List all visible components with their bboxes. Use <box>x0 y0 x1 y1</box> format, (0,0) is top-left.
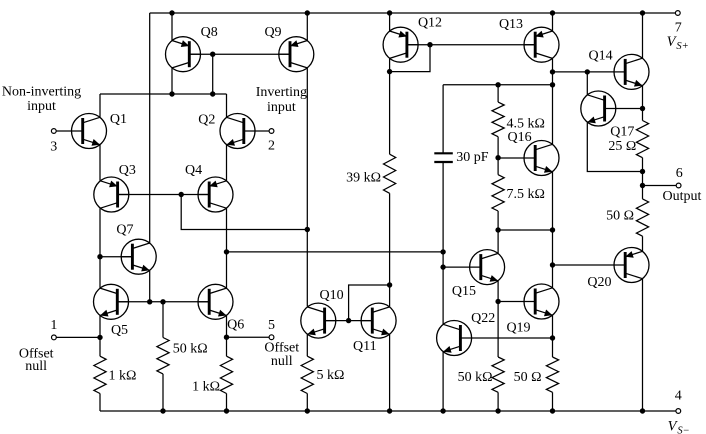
resistor R1 1k <box>94 356 137 393</box>
wire Q2 emitter to Q4 emitter <box>226 145 228 181</box>
transistor Q6 <box>198 284 245 332</box>
terminal pin 7 V_S+ <box>667 11 689 52</box>
wire Q13 emitter to top rail <box>552 13 554 31</box>
junction Q10-Q11 base node <box>346 318 351 323</box>
junction Q15 collector node <box>495 227 500 232</box>
junction Q13 collector / Q14 base node <box>550 69 555 74</box>
wire Q1 emitter to Q3 emitter <box>99 145 101 181</box>
svg-text:Output: Output <box>663 189 702 204</box>
wire Q8 base to Q9 base <box>189 53 290 55</box>
junction output tap <box>640 183 645 188</box>
junction 4.5k top <box>495 82 500 87</box>
transistor Q14 <box>589 49 649 90</box>
junction 50k resistor tap <box>160 299 165 304</box>
transistor Q2 <box>198 113 255 149</box>
wire Q13 collector down to Q16 collector <box>552 58 554 144</box>
wire Q7 collector to top rail (long vertical) <box>149 13 151 243</box>
transistor Q20 <box>553 248 650 290</box>
wire Q10 base to Q11 base <box>325 320 373 322</box>
wire Q8 base drop <box>212 54 214 94</box>
wire 25ohm to output node <box>642 158 644 199</box>
wire Q3 base to Q4 base <box>118 194 210 196</box>
junction Q16 emitter node <box>550 227 555 232</box>
junction Q8 collector node <box>169 91 174 96</box>
wire Q14 emitter down <box>642 86 644 121</box>
resistor R5 39k <box>346 154 396 193</box>
junction bias line at Q9 collector <box>305 227 310 232</box>
resistor R4 5k <box>301 356 344 393</box>
junction Q11 base-collector tie <box>387 282 392 287</box>
transistor Q15 <box>443 250 505 300</box>
junction Q12 collector node <box>387 69 392 74</box>
junction Q8 base drop node <box>210 91 215 96</box>
svg-text:Inverting: Inverting <box>256 85 307 100</box>
svg-text:7: 7 <box>675 21 682 36</box>
svg-text:1 kΩ: 1 kΩ <box>109 369 137 384</box>
wire Q17 collector up <box>586 72 588 95</box>
wire Q1 collector to node <box>99 94 101 117</box>
junction Q17 emitter at output <box>640 169 645 174</box>
junction R4 at bottom rail <box>305 408 310 413</box>
wire Q22 collector up <box>442 267 444 324</box>
wire Q12 emitter to top rail <box>389 13 391 31</box>
wire Q12 collector down <box>389 58 391 71</box>
junction Q11 emitter at bottom rail <box>387 408 392 413</box>
svg-text:Q17: Q17 <box>610 125 634 140</box>
wire Q14 collector to top rail <box>642 13 644 58</box>
junction Q9 emitter at rail <box>305 10 310 15</box>
wire Q17 emitter to output node <box>587 122 642 171</box>
junction Q20 base tap <box>550 262 555 267</box>
svg-text:1: 1 <box>50 318 57 333</box>
junction Q22 base / 50 ohm node <box>550 335 555 340</box>
wire Q1/Q8 collector bus <box>100 93 227 95</box>
wire Q12 base to collector tie <box>390 45 430 72</box>
wire compensation top line <box>443 84 552 86</box>
junction Q8 base-collector tie <box>210 52 215 57</box>
svg-text:Q11: Q11 <box>353 339 377 354</box>
svg-text:S+: S+ <box>676 41 688 52</box>
wire Q10/Q11 base to Q11 collector <box>349 285 390 321</box>
wire Q16 emitter line <box>498 229 552 231</box>
wire Q6 emitter down <box>226 316 228 357</box>
wire Q2 collector to node <box>226 94 228 117</box>
resistor R3 1k <box>192 356 233 394</box>
svg-text:50 kΩ: 50 kΩ <box>173 341 208 356</box>
svg-text:Q9: Q9 <box>264 25 281 40</box>
svg-text:S−: S− <box>677 426 689 434</box>
junction Q14 collector at rail <box>640 10 645 15</box>
transistor Q3 <box>94 163 136 212</box>
junction Q22 emitter at bottom rail <box>440 408 445 413</box>
transistor Q7 <box>116 223 156 275</box>
resistor R6 25ohm <box>636 121 648 158</box>
svg-text:null: null <box>271 354 293 369</box>
svg-text:Q2: Q2 <box>198 113 215 128</box>
svg-text:50 Ω: 50 Ω <box>606 209 634 224</box>
svg-text:3: 3 <box>50 140 57 155</box>
svg-text:Q20: Q20 <box>587 275 611 290</box>
wire Q3/Q4 bases to Q10 collector line <box>181 195 307 230</box>
wire Q19 collector up <box>552 230 554 288</box>
wire Q5 base to Q6 base <box>117 301 209 303</box>
capacitor C1 30 pF <box>434 150 489 165</box>
wire Q19 emitter down <box>552 315 554 357</box>
resistor R9 50k <box>458 357 505 392</box>
wire Q14 base line <box>553 71 626 73</box>
svg-text:Q6: Q6 <box>227 317 244 332</box>
svg-text:Q22: Q22 <box>471 311 495 326</box>
transistor Q16 <box>498 130 559 176</box>
wire Q3 collector to Q5 collector <box>99 208 101 288</box>
wire 39k to Q11 collector <box>389 193 391 285</box>
wire Q8 emitter to top rail <box>171 13 173 41</box>
junction Q15 base tie <box>440 264 445 269</box>
junction Q17 collector at Q14 base <box>585 69 590 74</box>
wire 4.5k top lead <box>497 85 499 102</box>
wire R3 bottom lead <box>226 394 228 412</box>
svg-text:input: input <box>267 100 296 115</box>
transistor Q19 <box>498 284 559 336</box>
junction R3 at bottom rail <box>224 408 229 413</box>
svg-text:Q5: Q5 <box>111 323 128 338</box>
wire Q4 collector to Q6 collector <box>226 208 228 288</box>
wire Q20 collector to bottom rail <box>642 279 644 411</box>
wire cap bottom lead <box>442 162 444 252</box>
svg-text:Q7: Q7 <box>116 223 133 238</box>
wire R4 bottom lead <box>306 394 308 412</box>
junction second stage takeoff <box>224 249 229 254</box>
transistor Q17 <box>581 91 643 126</box>
wire Q7 emitter down to base line <box>149 270 151 301</box>
transistor Q13 <box>499 17 559 62</box>
resistor R2 50k <box>157 338 208 374</box>
transistor Q1 <box>71 112 127 149</box>
junction offset null 5 node <box>224 335 229 340</box>
svg-text:25 Ω: 25 Ω <box>608 139 636 154</box>
svg-text:Q10: Q10 <box>320 288 344 303</box>
wire top supply rail V_S+ <box>150 12 676 14</box>
svg-text:50 kΩ: 50 kΩ <box>458 370 493 385</box>
wire bottom supply rail V_S- <box>100 410 676 412</box>
terminal pin 2 inverting input <box>244 85 307 153</box>
svg-text:Q14: Q14 <box>589 49 613 64</box>
junction Q8 emitter at rail <box>169 10 174 15</box>
transistor Q9 <box>264 25 313 72</box>
wire Q12 base to Q13 base <box>407 44 535 46</box>
resistor R8 7.5k <box>492 175 545 211</box>
svg-text:6: 6 <box>676 166 683 181</box>
junction Q7 emitter at base line <box>147 299 152 304</box>
wire Q19 base node to 50k <box>497 302 499 358</box>
svg-text:Q16: Q16 <box>508 130 532 145</box>
wire Q15 emitter down <box>497 281 499 302</box>
wire R10 bottom lead <box>552 392 554 411</box>
terminal pin 3 non-inverting input <box>2 85 83 155</box>
wire Q22 emitter to bottom rail <box>442 352 444 411</box>
svg-text:Q3: Q3 <box>119 163 136 178</box>
resistor R7 4.5k <box>492 102 545 137</box>
svg-text:Q19: Q19 <box>506 321 530 336</box>
svg-text:5 kΩ: 5 kΩ <box>317 368 345 383</box>
svg-text:1 kΩ: 1 kΩ <box>192 379 220 394</box>
transistor Q22 <box>437 311 553 355</box>
wire input stage output line <box>227 251 444 253</box>
wire cap top lead <box>442 85 444 154</box>
svg-text:7.5 kΩ: 7.5 kΩ <box>507 187 545 202</box>
junction Q12 base-collector tie <box>427 42 432 47</box>
wire Q11 emitter to bottom rail <box>389 334 391 411</box>
wire Q11 collector to 39k <box>389 285 391 307</box>
junction Q12 emitter at rail <box>387 10 392 15</box>
junction Q3-Q4 base node <box>179 192 184 197</box>
wire Q12 collector to 39k <box>389 72 391 155</box>
junction 50k at bottom rail <box>160 408 165 413</box>
svg-text:null: null <box>25 359 47 374</box>
terminal pin 5 offset null <box>227 318 300 369</box>
svg-text:Q15: Q15 <box>452 284 476 299</box>
svg-text:50 Ω: 50 Ω <box>514 370 542 385</box>
wire 7.5k bottom lead <box>497 211 499 230</box>
svg-text:Q4: Q4 <box>185 163 202 178</box>
svg-text:5: 5 <box>268 318 275 333</box>
svg-text:2: 2 <box>268 139 275 154</box>
label Q17 and 25 ohm <box>608 125 636 155</box>
junction offset null 1 node <box>97 335 102 340</box>
wire R1 bottom lead <box>99 394 101 412</box>
svg-text:30 pF: 30 pF <box>456 150 489 165</box>
terminal pin 1 offset null <box>19 318 100 374</box>
wire Q9 collector to Q10 collector <box>306 68 308 307</box>
svg-text:Q12: Q12 <box>418 16 442 31</box>
junction R9 at bottom rail <box>495 408 500 413</box>
transistor Q10 <box>301 288 344 338</box>
resistor R10 50ohm <box>514 357 559 392</box>
transistor Q8 <box>166 25 218 72</box>
junction Q7 base node <box>97 254 102 259</box>
wire 50k resistor top lead <box>162 302 164 338</box>
wire Q7 base to Q3 collector line <box>100 256 132 258</box>
transistor Q11 <box>353 303 396 354</box>
svg-text:Q1: Q1 <box>110 112 127 127</box>
wire Q9 emitter to top rail <box>306 13 308 41</box>
wire Q8 collector down <box>171 68 173 94</box>
junction Q13 emitter at rail <box>550 10 555 15</box>
transistor Q5 <box>94 284 130 338</box>
svg-text:Q8: Q8 <box>201 25 218 40</box>
svg-text:39 kΩ: 39 kΩ <box>346 170 381 185</box>
terminal pin 4 V_S- <box>668 389 690 434</box>
wire Q15 base node <box>442 252 444 267</box>
junction Q20 collector at bottom rail <box>640 408 645 413</box>
svg-text:4: 4 <box>675 389 682 404</box>
wire 4.5k to 7.5k <box>497 137 499 175</box>
junction R10 at bottom rail <box>550 408 555 413</box>
wire R9 bottom lead <box>497 392 499 411</box>
terminal pin 6 output <box>643 166 702 204</box>
wire 50k resistor bottom lead <box>162 374 164 411</box>
transistor Q12 <box>383 16 442 63</box>
svg-text:Non-inverting: Non-inverting <box>2 85 81 100</box>
wire 50ohm to Q20 emitter <box>642 236 644 251</box>
wire Q5 emitter down <box>99 316 101 357</box>
resistor R11 50ohm <box>606 199 649 236</box>
wire Q10 emitter to 5k <box>306 334 308 356</box>
transistor Q4 <box>185 163 233 212</box>
svg-text:Q13: Q13 <box>499 17 523 32</box>
wire Q16 emitter down <box>552 172 554 230</box>
junction cap at input stage output <box>440 249 445 254</box>
junction compensation node <box>550 82 555 87</box>
wire Q15 collector up <box>497 230 499 253</box>
junction Q19 base node <box>495 299 500 304</box>
svg-text:input: input <box>27 99 56 114</box>
junction Q14 emitter / Q17 base node <box>640 106 645 111</box>
junction Q16 base node <box>495 155 500 160</box>
